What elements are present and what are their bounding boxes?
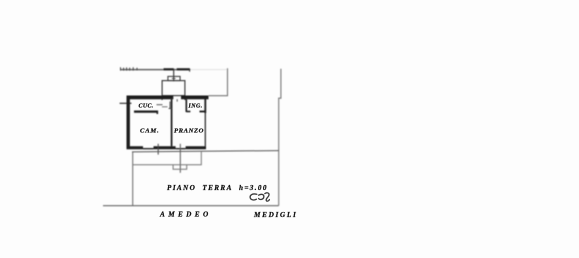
svg-text:CUC.: CUC.: [139, 103, 154, 109]
wall bottom: [127, 146, 207, 149]
svg-text:PRANZO: PRANZO: [174, 128, 204, 135]
jamb PRANZO terrace door: [179, 144, 181, 173]
boundary right upper vertical: [279, 69, 281, 206]
boundary top darker overdraw: [164, 68, 174, 70]
door marks vestibule: [162, 106, 168, 108]
svg-text:PIANO TERRA h=3.00: PIANO TERRA h=3.00: [167, 184, 268, 192]
boundary faint continuation: [191, 69, 228, 71]
site bottom line: [103, 205, 279, 207]
terrace top line: [132, 151, 279, 152]
jamb WC right: [156, 111, 158, 115]
wall divider CAM|PRANZO: [171, 99, 173, 146]
wall WC bottom: [134, 110, 158, 112]
chimney small rect: [168, 76, 180, 80]
wall ING left: [186, 99, 190, 112]
terrace bottom line: [133, 152, 202, 165]
wall right: [204, 99, 206, 113]
boundary line top: [121, 69, 191, 71]
jamb under wall gap: [176, 99, 178, 101]
svg-text:MEDIGLI: MEDIGLI: [253, 211, 297, 219]
door marks hallway WC: [157, 104, 163, 106]
chimney mid tick: [172, 77, 176, 79]
terrace left vertical: [132, 152, 134, 206]
jamb CAM terrace door: [157, 144, 159, 155]
svg-text:CAM.: CAM.: [140, 128, 160, 135]
top line end hook: [189, 68, 191, 71]
wall ING right foot: [200, 111, 206, 113]
terrace step tab: [173, 165, 187, 170]
wall left: [126, 96, 129, 150]
svg-text:AMEDEO: AMEDEO: [159, 210, 212, 218]
window left wall: [120, 102, 132, 104]
boundary top tick marks: [121, 67, 138, 70]
chimney large rect: [162, 81, 185, 96]
wall top: [127, 96, 209, 100]
window sill CAM bottom: [143, 148, 186, 150]
node chimney centre line: [173, 69, 175, 82]
annotation CO2: [250, 193, 269, 201]
chimney side ticks across wall: [162, 96, 185, 100]
svg-text:ING.: ING.: [188, 103, 203, 109]
courtyard corner line: [209, 68, 228, 95]
wall right lower: [204, 113, 206, 147]
